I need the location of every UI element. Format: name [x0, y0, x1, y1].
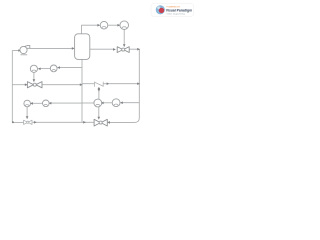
- svg-text:Online Diagramming: Online Diagramming: [167, 13, 185, 15]
- svg-text:Visual Paradigm: Visual Paradigm: [166, 8, 192, 12]
